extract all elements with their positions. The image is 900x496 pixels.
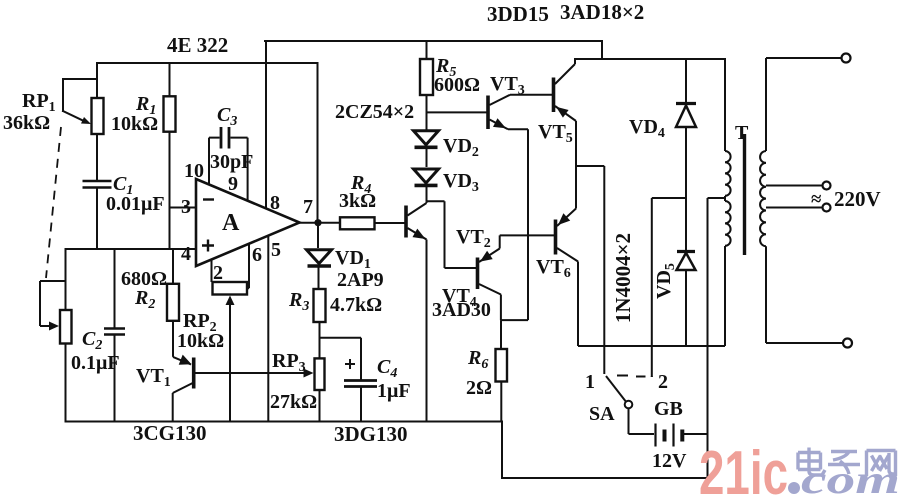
wire emitters to switch pos1	[576, 166, 604, 374]
svg-text:5: 5	[271, 239, 281, 261]
op-amp A	[196, 179, 300, 266]
VT3 emitter arrowhead	[493, 118, 506, 128]
capacitor C1	[83, 181, 112, 188]
diode VD5	[685, 198, 687, 346]
svg-text:2Ω: 2Ω	[466, 377, 492, 399]
svg-text:6: 6	[252, 244, 262, 266]
transformer T secondary	[760, 58, 843, 343]
RP2 wiper arrowhead	[226, 296, 235, 306]
svg-text:10kΩ: 10kΩ	[177, 330, 224, 352]
potentiometer RP1	[92, 98, 104, 134]
transistor VT5	[554, 59, 577, 166]
switch SA	[606, 376, 654, 435]
svg-text:GB: GB	[654, 398, 683, 420]
diode VD4	[685, 59, 687, 198]
wire top rail V+	[265, 41, 725, 59]
svg-text:9: 9	[228, 173, 238, 195]
VT5 emitter arrowhead	[556, 107, 569, 118]
dashed gang coupling line	[46, 127, 61, 278]
svg-text:3AD30: 3AD30	[432, 299, 491, 321]
transformer T primary	[725, 59, 731, 346]
svg-text:2AP9: 2AP9	[337, 269, 384, 291]
resistor R2	[167, 249, 179, 357]
resistor R5	[420, 41, 433, 131]
terminal top output	[842, 54, 851, 63]
svg-text:T: T	[735, 122, 749, 144]
svg-text:220V: 220V	[834, 187, 881, 211]
svg-text:27kΩ: 27kΩ	[270, 391, 317, 413]
transformer core	[743, 134, 746, 255]
svg-text:4.7kΩ: 4.7kΩ	[330, 294, 382, 316]
resistor R6	[496, 320, 508, 421]
svg-text:30pF: 30pF	[210, 151, 253, 173]
wire VT3 base	[427, 111, 487, 113]
wire bottom ground rail	[66, 422, 708, 479]
ganged trimmer pot (lower)	[40, 249, 72, 422]
wire centre tap to battery	[708, 198, 726, 478]
wire pin4 net	[66, 248, 197, 250]
transistor VT2 driver 3DG130	[406, 201, 427, 421]
svg-text:3DD15: 3DD15	[487, 2, 549, 26]
diode VD1	[308, 223, 332, 289]
RP1 wiper arrowhead	[81, 117, 91, 124]
svg-text:4E 322: 4E 322	[167, 33, 228, 57]
svg-text:10kΩ: 10kΩ	[111, 113, 158, 135]
VT1 emitter arrowhead	[179, 355, 192, 365]
capacitor C2	[104, 329, 125, 335]
wire VT4 collector to R6	[501, 319, 528, 321]
RP3 wiper arrowhead	[304, 369, 314, 378]
svg-text:3: 3	[181, 196, 191, 218]
svg-text:600Ω: 600Ω	[434, 74, 480, 96]
diode VD3	[414, 169, 439, 183]
VT2 emitter arrowhead	[413, 229, 426, 239]
transistor VT4	[478, 235, 501, 320]
capacitor C4	[320, 338, 378, 422]
wire VT6 collector rail to primary bottom	[578, 345, 725, 347]
wire feedback rail y63	[97, 63, 318, 223]
wire VT6 base node	[500, 234, 554, 236]
resistor R1	[164, 63, 176, 249]
svg-text:2CZ54×2: 2CZ54×2	[335, 101, 414, 123]
svg-text:1μF: 1μF	[377, 380, 411, 402]
terminal 220V lower	[823, 204, 831, 212]
potentiometer RP2	[212, 244, 250, 422]
svg-text:0.1μF: 0.1μF	[71, 352, 120, 374]
resistor R4	[340, 217, 375, 229]
svg-text:3CG130: 3CG130	[133, 421, 207, 445]
diode VD2	[414, 131, 439, 145]
svg-text:0.01μF: 0.01μF	[106, 193, 165, 215]
svg-text:≈: ≈	[811, 189, 822, 210]
svg-text:10: 10	[184, 160, 204, 182]
svg-text:3DG130: 3DG130	[334, 422, 408, 446]
wire VT2 collector to VT4 base	[427, 201, 477, 268]
svg-text:36kΩ: 36kΩ	[3, 112, 50, 134]
wire 220V taps	[766, 186, 822, 208]
svg-text:2: 2	[213, 262, 223, 284]
svg-text:3AD18×2: 3AD18×2	[560, 0, 644, 24]
VT4 emitter arrowhead	[480, 251, 493, 262]
svg-text:21ic: 21ic	[699, 439, 788, 496]
op-amp minus	[203, 198, 214, 200]
wire secondary top to output	[766, 57, 841, 59]
watermark dianziwang	[798, 448, 896, 477]
op-amp plus	[202, 240, 214, 252]
node pin7 junction dot	[314, 219, 321, 226]
terminal 220V upper	[823, 182, 831, 190]
transistor VT6	[556, 166, 579, 346]
svg-text:12V: 12V	[652, 450, 687, 472]
battery GB	[656, 424, 708, 447]
VT6 emitter arrowhead	[558, 213, 570, 225]
potentiometer RP3	[315, 358, 325, 421]
wire VD mid to switch pos2	[652, 198, 686, 377]
svg-text:1N4004×2: 1N4004×2	[611, 233, 635, 323]
terminal bottom output	[843, 339, 852, 348]
wire pin3 stub	[170, 207, 197, 209]
svg-text:2: 2	[658, 371, 668, 393]
wire op-amp pin8 supply	[265, 41, 267, 209]
transistor VT3	[488, 95, 552, 320]
wire output pin7	[300, 222, 405, 224]
svg-text:8: 8	[270, 192, 280, 214]
wire pin5 to ground	[267, 236, 269, 422]
svg-text:A: A	[222, 210, 240, 236]
svg-text:3kΩ: 3kΩ	[339, 190, 376, 212]
svg-text:1: 1	[585, 371, 595, 393]
transistor VT1	[173, 357, 306, 422]
svg-text:4: 4	[181, 243, 191, 265]
svg-text:SA: SA	[589, 403, 615, 425]
svg-text:7: 7	[303, 196, 313, 218]
trimmer wiper arrowhead	[49, 322, 59, 331]
resistor R3	[314, 289, 326, 358]
watermark dot	[788, 482, 800, 494]
capacitor C3	[209, 127, 248, 201]
